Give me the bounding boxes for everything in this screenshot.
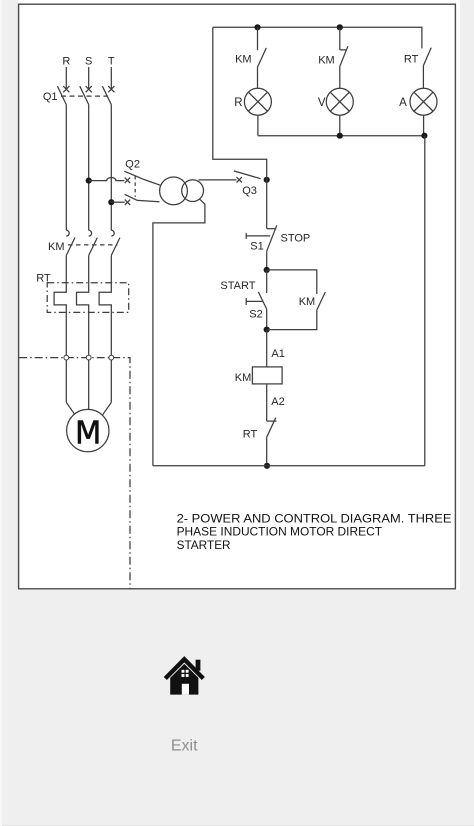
breaker Q1 pole 2 blade [80,86,89,104]
wire to V lamp [339,66,341,88]
wire V lamp to bottom rail [339,115,341,136]
svg-text:R: R [234,97,242,109]
control bottom rail [153,465,425,467]
wire S2 to node [266,309,268,330]
Q2 upper contact cross [125,178,130,183]
label A1 [271,348,284,360]
KM auxiliary contact branch wire upper [267,270,317,294]
indicator lamp V [326,88,353,115]
lamp branch KM contact label [235,54,252,66]
transformer T1 secondary circle [182,180,204,202]
svg-text:KM: KM [299,296,316,308]
supply lead T with contact cross [108,67,114,92]
breaker Q1 pole 1 blade [57,86,66,104]
Q2 lower contact cross [125,200,130,205]
switch Q2 label [125,159,140,171]
motor lead right diagonal [103,402,112,414]
svg-text:2- POWER AND CONTROL DIAGRAM.: 2- POWER AND CONTROL DIAGRAM. THREE [177,511,452,525]
KM NC contact blade (V lamp) [340,46,348,66]
wire phase T vertical [110,105,112,231]
label S1 [250,240,263,252]
svg-text:A1: A1 [271,348,284,360]
svg-text:PHASE INDUCTION MOTOR DIRECT: PHASE INDUCTION MOTOR DIRECT [177,525,383,539]
breaker Q1 linkage (dashed) [61,95,108,97]
KM auxiliary contact blade [317,292,326,310]
pushbutton S2 START (NO) [246,292,267,309]
wire pole 3 with heater jog [99,255,111,402]
wire Q2 upper with hop over T [89,178,125,181]
label STOP [281,232,311,244]
node on bottom rail [264,463,270,469]
circuit breaker Q1 label [43,91,58,103]
wire S1 to node [266,251,268,270]
right riser to lamp box [424,136,426,466]
junction node bottom rail V [337,133,343,139]
KM NO contact blade (R lamp) [258,48,267,67]
wire phase R vertical [65,105,67,231]
wire V-lamp branch upper [339,27,341,50]
RT NO contact blade (A lamp) [423,48,431,66]
contactor KM pole 3 [111,230,120,255]
svg-text:Q2: Q2 [125,159,140,171]
junction node on S phase [86,178,92,184]
motor M1 [67,409,109,451]
lamp branch KM NC label [318,54,335,66]
contactor KM linkage (dashed) [68,244,118,246]
KM auxiliary contact branch wire lower [267,310,317,330]
svg-text:KM: KM [318,54,335,66]
junction node top rail V branch [337,24,343,30]
contactor KM pole 2 [89,230,98,255]
indicator lamp A [410,88,437,115]
junction node top rail R branch [254,24,260,30]
wire from Q3 node up to lamp rail [213,27,267,180]
indicator lamp R [244,88,271,115]
thermal relay RT label [36,273,51,285]
wire transformer return [153,199,205,466]
svg-text:Q3: Q3 [242,185,257,197]
label A2 [271,396,284,408]
switch Q3 blade [234,171,261,179]
KM NC contact seat (V lamp) [340,49,347,51]
Q2 linkage (dashed) [134,176,136,197]
SCHEMATIC [0,0,1,1]
svg-text:R: R [62,56,70,68]
motor lead left diagonal [66,402,75,414]
svg-text:RT: RT [243,428,258,440]
wire pole 2 with heater jog [77,255,89,409]
contactor KM label (power) [48,241,65,253]
svg-text:Exit: Exit [171,737,198,754]
home icon button [165,659,203,694]
svg-text:RT: RT [404,53,419,65]
lamp R letter [234,97,242,109]
wire transformer output top [199,179,237,181]
junction node on T phase [108,199,114,205]
svg-text:STOP: STOP [281,232,311,244]
svg-text:T: T [108,56,115,68]
wire Q2 lower from T node [111,201,124,203]
Q2 lower blade [125,194,138,200]
node below S2 [264,327,270,333]
lamp box bottom rail [258,135,425,137]
wire node to coil A1 [266,330,268,367]
terminal circle phase 3 [109,355,114,360]
lamp branch RT contact label [404,53,419,65]
wire node to S2 [266,270,268,293]
transformer T1 primary circle [160,177,188,205]
svg-text:Q1: Q1 [43,91,58,103]
svg-text:KM: KM [235,372,252,384]
terminal circle phase 2 [86,355,91,360]
wire Q2 lower to transformer [137,200,159,201]
caption text [177,511,452,551]
wire RT to bottom rail [266,437,268,466]
switch Q3 contact cross [237,177,242,182]
wire Q2 upper to transformer [144,179,161,185]
label RT contact [243,428,258,440]
breaker Q1 pole 3 blade [102,86,111,104]
label START [220,280,255,292]
svg-text:A2: A2 [271,396,284,408]
junction node bottom rail A [421,133,427,139]
Q2 upper blade [124,171,143,179]
lamp V letter [318,97,326,109]
label KM coil [235,372,252,384]
wire R-lamp branch upper [257,27,259,50]
label KM aux [299,296,316,308]
node after Q3 [264,177,270,183]
phase label R [62,56,70,68]
contactor KM pole 1 [66,230,75,255]
svg-text:START: START [220,280,255,292]
wire control spine Q3 to S1 [266,180,268,229]
svg-text:KM: KM [48,241,65,253]
supply lead S with contact cross [86,67,92,92]
wire pole 1 with heater jog [54,255,66,402]
svg-text:STARTER: STARTER [177,538,231,552]
machine boundary (dash-dot) [19,358,130,589]
svg-text:S: S [85,56,92,68]
thermal relay RT box (dash-dot) [47,283,129,313]
thermal contact RT (NC) [267,418,277,438]
switch Q3 label [242,185,257,197]
wire to R lamp [257,67,259,88]
svg-text:S1: S1 [250,240,263,252]
svg-text:S2: S2 [249,309,262,321]
node below S1 [264,267,270,273]
svg-text:V: V [318,97,326,109]
pushbutton S1 STOP (NC) [246,225,277,251]
label S2 [249,309,262,321]
phase label S [85,56,92,68]
lamp box top rail [213,27,422,48]
lamp A letter [399,97,407,109]
svg-text:KM: KM [235,54,252,66]
supply lead R with contact cross [63,67,69,92]
phase label T [108,56,115,68]
wire phase S vertical [88,105,90,231]
wire coil A2 down [266,384,268,421]
wire to A lamp [422,66,424,89]
exit label [171,737,198,754]
contactor coil KM [252,367,282,384]
svg-text:A: A [399,97,407,109]
wire A lamp to bottom rail [423,115,425,136]
wire R lamp to bottom rail [257,115,259,136]
terminal circle phase 1 [64,355,69,360]
